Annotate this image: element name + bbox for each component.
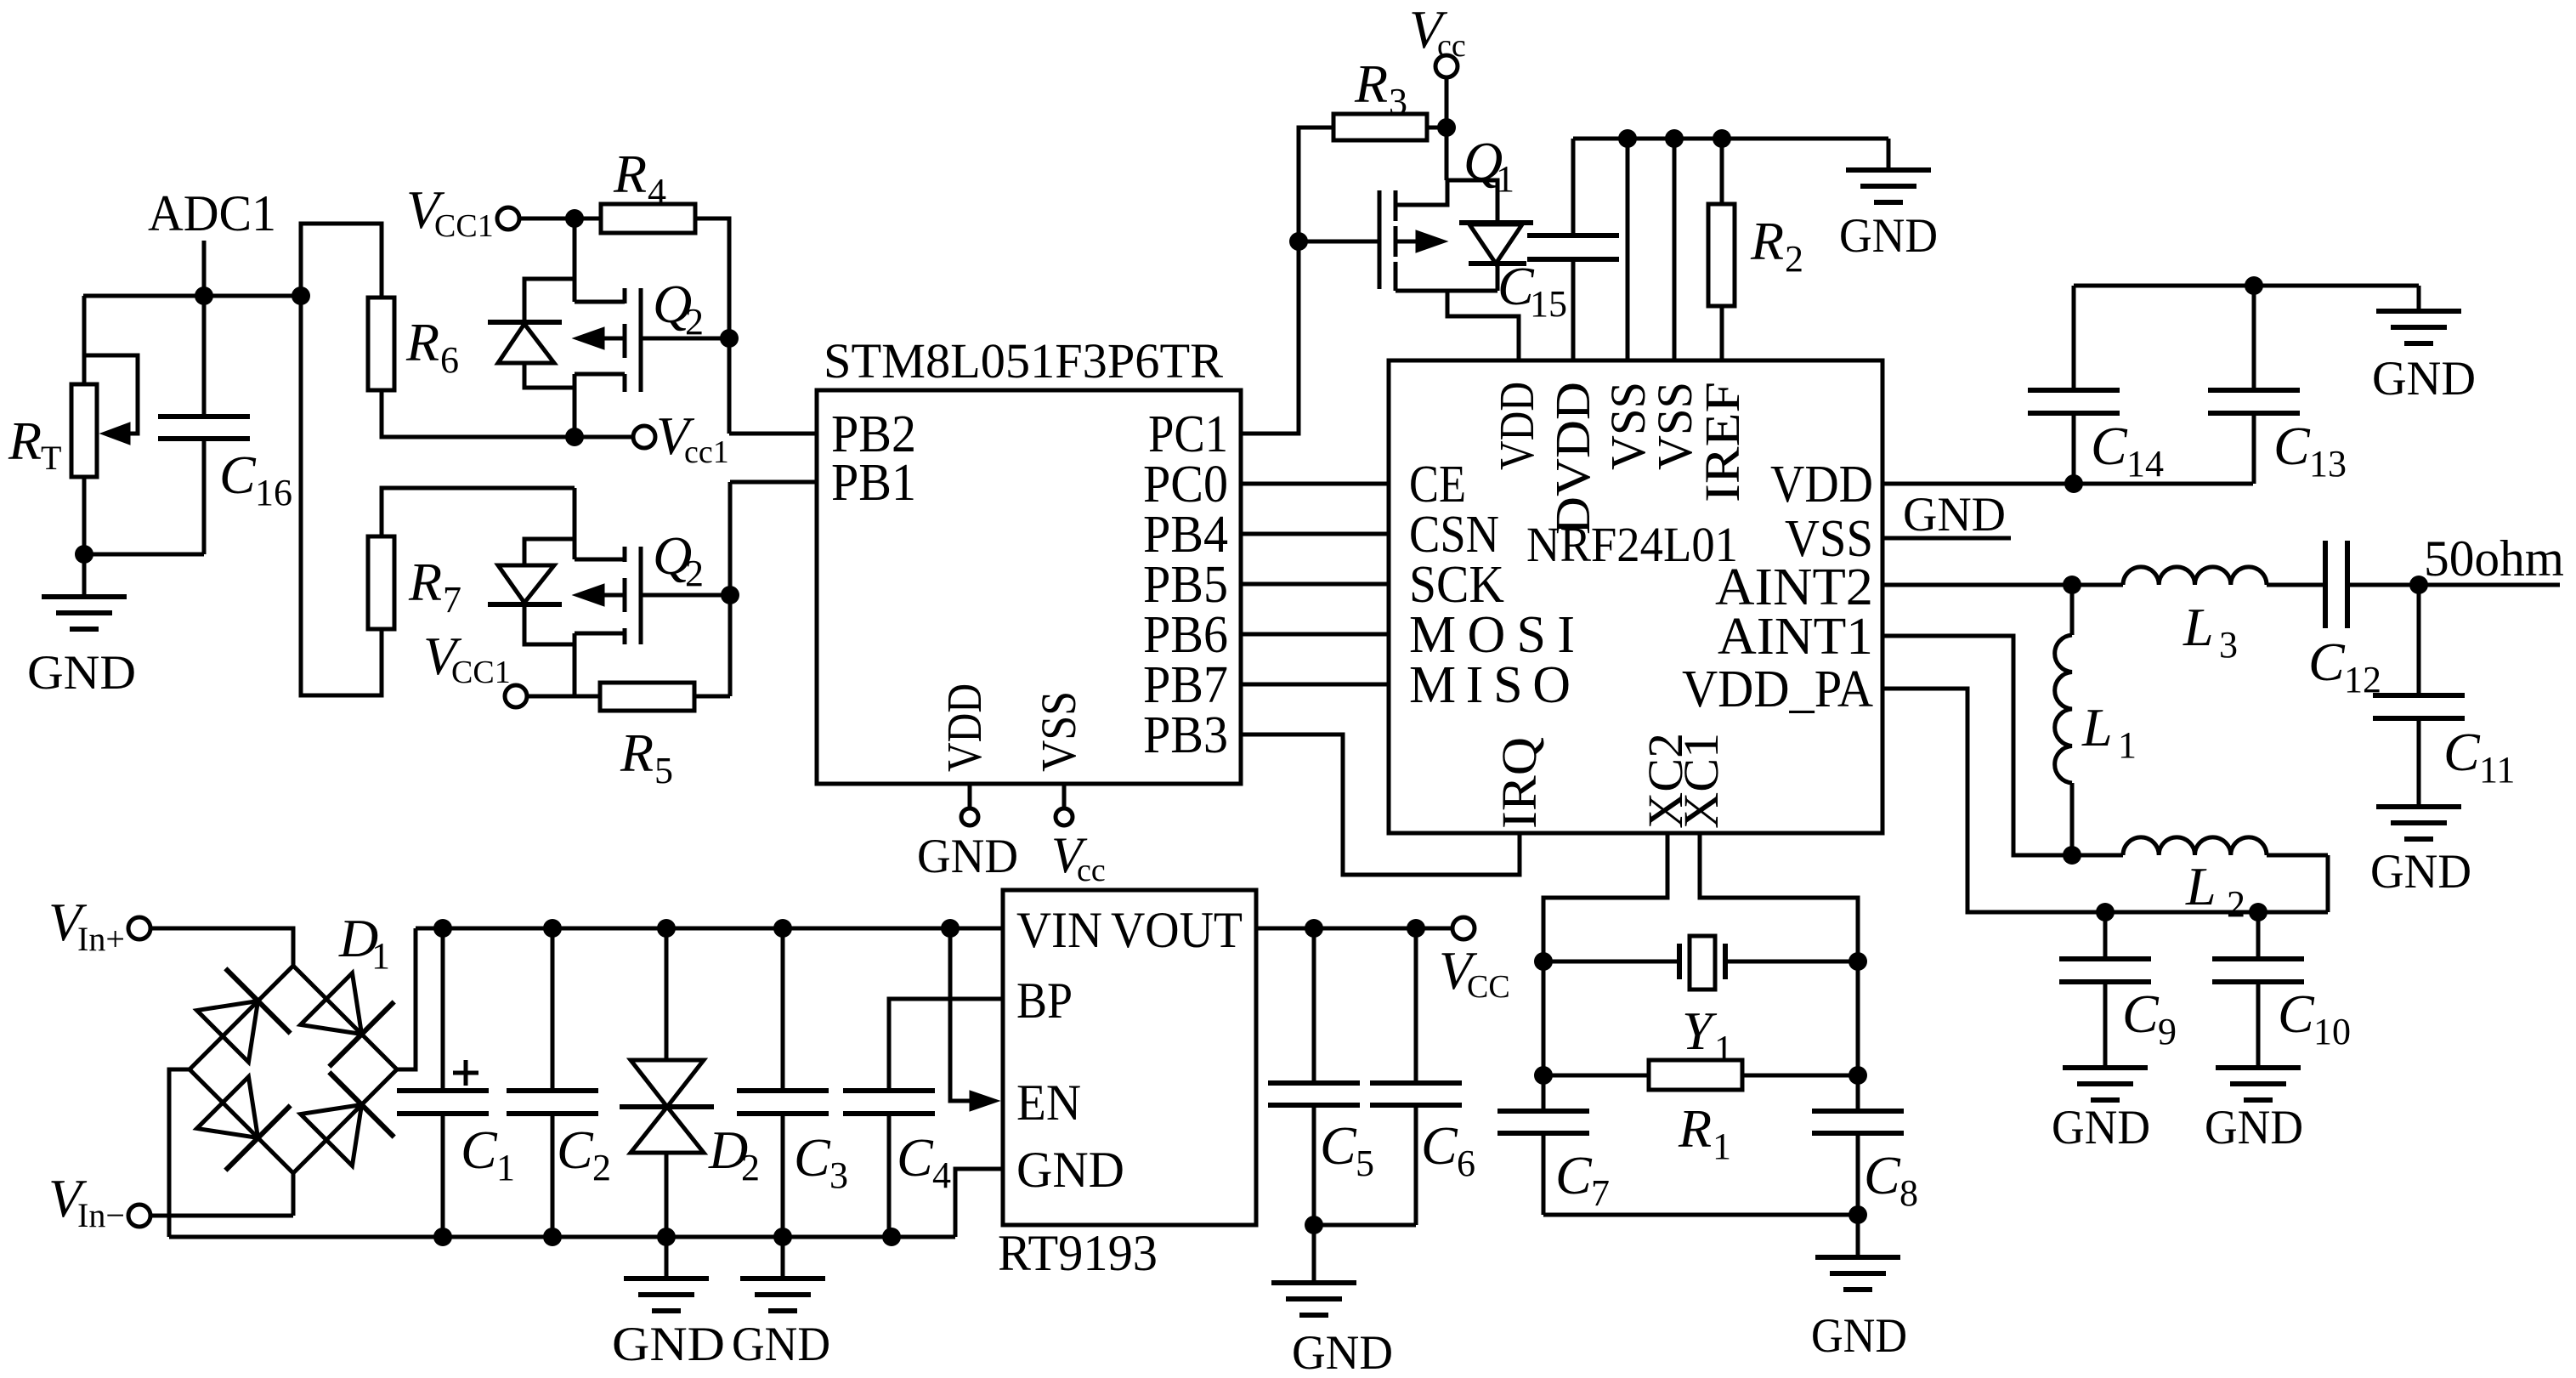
junction dot C2 top: [543, 919, 562, 938]
transistor Q2 (upper) gate bar: [639, 288, 643, 392]
label C5: [1320, 1115, 1374, 1184]
ground GND (C11): [2370, 718, 2471, 899]
terminal VCC1 (top): [497, 207, 519, 230]
pin label IRQ (NRF bottom): [1492, 737, 1547, 829]
pin label XC1 (NRF bottom): [1673, 733, 1729, 829]
label VCC1 lower: [423, 626, 511, 690]
capacitor C7 bottom stem: [1542, 1133, 1546, 1215]
transistor Q2 (lower) gate lead: [641, 593, 730, 598]
wire bridge + output: [397, 928, 416, 1069]
svg-text:R: R: [408, 552, 442, 612]
label R4: [613, 144, 666, 213]
svg-text:GND: GND: [1839, 209, 1938, 263]
label C15: [1497, 256, 1567, 325]
capacitor C1 plus sign: [453, 1060, 478, 1086]
junction dot C6 top: [1407, 919, 1425, 938]
capacitor C16 bottom stem: [202, 439, 207, 554]
wire EN branch: [950, 928, 974, 1101]
wire VOUT out: [1256, 927, 1452, 931]
capacitor C12: [2325, 541, 2347, 628]
svg-text:VDD: VDD: [1770, 456, 1873, 513]
transistor Q1 gate lead: [1299, 240, 1379, 244]
svg-text:GND: GND: [1811, 1309, 1907, 1363]
svg-text:C: C: [1555, 1145, 1593, 1205]
svg-text:GND: GND: [2052, 1101, 2150, 1154]
label NRF24L01: [1526, 517, 1738, 572]
bridge diode D1a (L to T): [197, 968, 291, 1062]
pin label VDD (STM bottom): [937, 683, 992, 772]
svg-text:8: 8: [1899, 1172, 1918, 1214]
label VIn-: [48, 1168, 125, 1234]
wire AINT2 out: [1882, 583, 2123, 587]
label R7: [408, 552, 461, 621]
wire R1 right lead: [1742, 1074, 1858, 1078]
wire R2 bottom stem: [1720, 306, 1724, 360]
svg-text:2: 2: [741, 1147, 760, 1188]
capacitor C3: [737, 1091, 829, 1114]
pin label AINT2: [1715, 559, 1873, 616]
transistor Q1 gate bar: [1378, 190, 1382, 289]
svg-text:IRQ: IRQ: [1492, 737, 1547, 829]
svg-text:C: C: [2273, 416, 2311, 476]
body diode D-Q1 cathode bar: [1469, 261, 1526, 266]
svg-text:1: 1: [2118, 724, 2137, 766]
label Vcc top: [1409, 0, 1466, 64]
svg-text:STM8L051F3P6TR: STM8L051F3P6TR: [824, 333, 1223, 388]
wire PB7-MISO: [1241, 683, 1389, 687]
svg-text:In−: In−: [77, 1196, 125, 1234]
svg-text:PB1: PB1: [831, 454, 916, 512]
capacitor C13 bottom stem: [2252, 413, 2256, 484]
pin label PC0: [1143, 456, 1228, 513]
wire VDD (NRF) to C13/C14: [1882, 482, 2253, 486]
resistor R2: [1708, 204, 1735, 306]
svg-text:C: C: [219, 445, 257, 505]
label Q2 (upper): [653, 274, 704, 343]
junction dot C5 top: [1305, 919, 1323, 938]
svg-text:1: 1: [371, 935, 390, 977]
junction dot C1 bottom: [433, 1228, 452, 1246]
svg-text:L: L: [2081, 697, 2113, 757]
svg-text:CSN: CSN: [1409, 506, 1499, 564]
body diode D-Q1 triangle: [1469, 224, 1522, 264]
svg-text:C: C: [1320, 1115, 1357, 1176]
svg-text:1: 1: [496, 1147, 515, 1188]
label Vcc (STM): [1051, 827, 1106, 888]
capacitor C1 top stem: [441, 928, 445, 1091]
junction dot C3 bottom: [773, 1228, 792, 1246]
TVS diode D2 bar: [620, 1104, 714, 1109]
transistor Q2 (upper) source column: [573, 218, 577, 302]
pin label MISO: [1409, 656, 1571, 714]
ground GND (top rail): [1839, 139, 1938, 263]
junction dot D2 top: [657, 919, 676, 938]
junction dot VSSb: [1665, 129, 1684, 148]
ground GND (crystal): [1811, 1215, 1907, 1363]
label GND (STM): [917, 830, 1018, 883]
EN arrow: [970, 1091, 999, 1111]
svg-text:C: C: [897, 1127, 934, 1188]
terminal GND stub (STM): [961, 808, 978, 825]
pin label GND (RT9193): [1016, 1142, 1124, 1198]
TVS diode D2 lower triangle: [631, 1107, 704, 1153]
capacitor C9: [2059, 959, 2151, 982]
wire VCC1 to R5: [527, 695, 600, 699]
ground GND (C13/C14): [2372, 286, 2476, 405]
svg-text:C: C: [794, 1127, 831, 1188]
svg-text:ADC1: ADC1: [148, 185, 276, 241]
capacitor C15 bottom stem: [1571, 259, 1576, 360]
transistor Q2 (upper) drain column: [573, 374, 577, 437]
label C7: [1555, 1145, 1610, 1214]
svg-text:6: 6: [1457, 1143, 1475, 1184]
wire R5 right: [694, 695, 730, 699]
ground GND (RT): [27, 554, 136, 700]
svg-text:R: R: [1354, 54, 1388, 114]
pin label IREF (NRF top): [1695, 382, 1750, 502]
svg-text:cc1: cc1: [684, 434, 729, 470]
svg-text:In+: In+: [77, 920, 125, 958]
inductor L3: [2123, 567, 2267, 585]
junction dot C2 bottom: [543, 1228, 562, 1246]
svg-text:C: C: [461, 1120, 498, 1180]
junction dot C5 gnd: [1305, 1216, 1323, 1234]
svg-text:3: 3: [1389, 81, 1407, 122]
label C14: [2091, 416, 2164, 485]
capacitor C2: [507, 1091, 598, 1114]
wire lower gate column: [728, 482, 733, 696]
pin label VSS (NRF right): [1785, 510, 1873, 568]
junction dot C14 bottom: [2064, 474, 2083, 493]
capacitor C5 top stem: [1312, 928, 1316, 1083]
pin label VSS (NRF top a): [1600, 382, 1656, 470]
junction dot L1/L2: [2063, 846, 2081, 865]
junction dot C9 top: [2096, 903, 2115, 922]
svg-text:T: T: [41, 439, 61, 477]
svg-text:4: 4: [932, 1154, 951, 1196]
junction dot C8 gnd: [1848, 1205, 1867, 1224]
svg-text:2: 2: [685, 553, 704, 594]
label L1: [2081, 697, 2137, 766]
transistor Q2 (upper) drain tap: [575, 372, 625, 377]
wire Vcc column: [1445, 77, 1449, 180]
svg-text:GND: GND: [612, 1318, 725, 1371]
label C6: [1421, 1115, 1475, 1184]
wire ADC1 node horizontal: [83, 294, 301, 298]
label VIn+: [48, 892, 125, 958]
svg-text:11: 11: [2479, 749, 2515, 791]
svg-text:50ohm: 50ohm: [2424, 530, 2564, 587]
junction dot R3-Vcc: [1437, 118, 1456, 137]
terminal Vcc stub (STM): [1056, 808, 1073, 825]
capacitor C5 bottom stem: [1312, 1105, 1316, 1225]
bridge D1 edge L-B: [190, 1069, 293, 1173]
wire RT/C16 bottom link: [84, 553, 204, 557]
pin label CE: [1409, 456, 1466, 513]
resistor R6: [368, 298, 394, 390]
svg-text:1: 1: [1496, 158, 1514, 200]
svg-text:PC0: PC0: [1143, 456, 1228, 513]
label R2: [1750, 211, 1803, 280]
capacitor C11 top stem: [2417, 585, 2421, 695]
body diode D-Q2a triangle: [498, 324, 554, 363]
svg-text:C: C: [1864, 1145, 1901, 1205]
svg-text:15: 15: [1530, 283, 1567, 325]
label VCC (RT9193 out): [1439, 940, 1510, 1005]
wire C7-C8 bottom: [1543, 1213, 1858, 1217]
node ADC1 label: [148, 185, 276, 241]
wire BP branch: [889, 999, 1003, 1091]
pin label PC1: [1148, 405, 1228, 463]
resistor R7: [368, 536, 394, 629]
transistor Q2 (upper) body arrow: [573, 327, 625, 349]
capacitor C7: [1497, 1111, 1589, 1133]
junction dot D2 bottom: [657, 1228, 676, 1246]
svg-text:VDD_PA: VDD_PA: [1682, 661, 1873, 718]
svg-text:10: 10: [2313, 1011, 2351, 1052]
label L3: [2183, 597, 2238, 666]
label C12: [2308, 632, 2381, 700]
bridge diode D1d (B to R): [301, 1072, 394, 1165]
bridge D1 edge T-L: [190, 966, 293, 1069]
svg-text:16: 16: [255, 472, 292, 513]
ground GND (C10): [2205, 982, 2303, 1154]
junction dot Vcc1 node: [565, 428, 584, 446]
capacitor C8 bottom stem: [1856, 1133, 1860, 1215]
TVS diode D2 bottom stem: [665, 1153, 669, 1237]
IC U-RT9193 box: [1003, 890, 1256, 1225]
svg-text:R: R: [1750, 211, 1784, 271]
pin label PB1: [831, 454, 916, 512]
svg-text:GND: GND: [917, 830, 1018, 883]
wire VCC1 to R4: [519, 217, 601, 221]
label C3: [794, 1127, 848, 1196]
ground GND (C3): [732, 1237, 830, 1371]
svg-text:C: C: [2091, 416, 2128, 476]
wire bridge bottom stub: [292, 1173, 296, 1216]
pin label VDD (NRF right): [1770, 456, 1873, 513]
svg-text:GND: GND: [732, 1318, 830, 1371]
label C16: [219, 445, 292, 513]
transistor Q1 drain tap: [1396, 289, 1497, 293]
label 50ohm: [2424, 530, 2564, 587]
junction dot Q2b gate: [721, 586, 739, 604]
label RT9193: [998, 1225, 1158, 1281]
label R3: [1354, 54, 1407, 122]
capacitor C1 bottom stem: [441, 1114, 445, 1237]
wire ADC1 stub: [202, 241, 207, 296]
wire RT top terminal: [82, 296, 87, 384]
capacitor C6 bottom stem: [1414, 1105, 1418, 1225]
svg-text:2: 2: [592, 1147, 611, 1188]
pin label VSS (STM bottom): [1031, 691, 1086, 772]
svg-text:VSS: VSS: [1031, 691, 1086, 772]
capacitor C6 top stem: [1414, 928, 1418, 1083]
svg-text:R: R: [405, 312, 439, 372]
capacitor C16: [158, 417, 250, 439]
label C10: [2278, 984, 2351, 1052]
wire Y1 right lead: [1725, 960, 1858, 964]
wire PC0-CE: [1241, 482, 1389, 486]
svg-text:BP: BP: [1016, 973, 1073, 1029]
capacitor C13 top stem: [2252, 286, 2256, 390]
wire PB3 to IRQ route: [1241, 734, 1520, 875]
wire L2 down: [2326, 855, 2330, 912]
pin label VIN: [1016, 902, 1102, 958]
svg-text:IREF: IREF: [1695, 382, 1750, 502]
svg-text:XC1: XC1: [1673, 733, 1729, 829]
label R1: [1678, 1098, 1731, 1167]
label C8: [1864, 1145, 1918, 1214]
net label GND (VSS wire): [1882, 488, 2011, 542]
inductor L1: [2055, 585, 2072, 855]
capacitor C4: [843, 1091, 935, 1114]
capacitor C1: [397, 1091, 489, 1114]
svg-text:5: 5: [1356, 1143, 1374, 1184]
pin label PB2: [831, 405, 916, 463]
svg-text:RT9193: RT9193: [998, 1225, 1158, 1281]
wire R7 top to Q2b: [382, 488, 575, 536]
resistor R5: [600, 683, 694, 711]
label C9: [2122, 984, 2177, 1052]
transistor Q2 (upper) source tap: [575, 300, 625, 304]
wire XC2 route: [1543, 833, 1667, 961]
TVS diode D2 top stem: [665, 928, 669, 1060]
svg-text:C: C: [557, 1120, 594, 1180]
junction dot Q1 gate branch: [1289, 232, 1308, 251]
svg-text:6: 6: [440, 339, 459, 381]
capacitor C14 bottom stem: [2072, 413, 2076, 484]
bridge diode D1c (L to B): [197, 1077, 291, 1171]
junction dot VCC1 column: [565, 209, 584, 228]
label R6: [405, 312, 459, 381]
wire RT wiper loop: [84, 355, 138, 434]
junction dot R1 left: [1534, 1066, 1553, 1085]
resistor R4: [601, 204, 695, 233]
body diode D-Q2a loop: [524, 279, 575, 388]
svg-text:cc: cc: [1437, 28, 1466, 64]
pin label XC2 (NRF bottom): [1638, 733, 1693, 829]
wire XC1 route: [1700, 833, 1858, 961]
junction dot L1 top: [2063, 576, 2081, 594]
junction dot VSSa: [1618, 129, 1637, 148]
junction dot 50ohm/C11: [2409, 576, 2428, 594]
wire VIn- to bridge: [150, 1214, 293, 1218]
svg-text:GND: GND: [1903, 488, 2006, 542]
pin label AINT1: [1718, 608, 1873, 666]
wire PB2 to gate column: [729, 432, 817, 436]
pin label DVDD (NRF top): [1545, 382, 1600, 535]
svg-text:VDD: VDD: [937, 683, 992, 772]
svg-text:2: 2: [1785, 238, 1803, 280]
body diode D-Q2b cathode bar: [488, 602, 562, 607]
wire PB4-CSN: [1241, 532, 1389, 536]
wire ADC1 down to R7 bottom: [301, 296, 382, 695]
wire R3 right: [1427, 126, 1447, 130]
terminal VCC (RT9193 out): [1452, 917, 1475, 939]
label C4: [897, 1127, 951, 1196]
junction dot RT-C16 bottom: [75, 545, 93, 564]
body diode D-Q1 anode bar: [1459, 220, 1533, 225]
junction dot Q2a gate: [720, 329, 739, 348]
label L2: [2185, 856, 2245, 925]
junction dot Y1 right: [1848, 952, 1867, 971]
svg-text:C: C: [2278, 984, 2315, 1044]
pin label PB7: [1143, 656, 1228, 714]
pin label VSS (NRF top b): [1647, 382, 1702, 470]
junction dot EN branch: [941, 919, 960, 938]
label Vcc1: [656, 405, 729, 470]
wire PB1 to gate column (lower): [730, 480, 817, 485]
wire VSSa drop: [1626, 139, 1630, 360]
transistor Q2 (lower) drain column: [573, 633, 577, 696]
terminal Vcc (top): [1435, 55, 1458, 77]
transistor Q2 (lower) source tap: [575, 558, 625, 562]
svg-text:3: 3: [2219, 624, 2238, 666]
svg-text:4: 4: [648, 171, 666, 213]
pin label PB3: [1143, 706, 1228, 764]
capacitor C15: [1527, 235, 1619, 259]
pin label PB6: [1143, 606, 1228, 664]
bridge D1 edge T-R: [293, 966, 397, 1069]
bridge D1 edge B-R: [293, 1069, 397, 1173]
inductor L2: [2072, 837, 2328, 855]
IC U-NRF24L01 box: [1389, 360, 1882, 833]
capacitor C2 top stem: [551, 928, 555, 1091]
svg-text:PB6: PB6: [1143, 606, 1228, 664]
svg-text:PB7: PB7: [1143, 656, 1228, 714]
transistor Q2 (upper) channel dashes: [623, 288, 627, 392]
svg-text:VDD: VDD: [1489, 382, 1544, 470]
label C1: [461, 1120, 515, 1188]
svg-text:7: 7: [1591, 1172, 1610, 1214]
crystal Y1: [1679, 936, 1725, 990]
wire PB6-MOSI: [1241, 632, 1389, 637]
body diode D-Q2b triangle: [498, 565, 554, 603]
svg-text:3: 3: [829, 1154, 848, 1196]
pin label EN: [1016, 1075, 1081, 1131]
svg-text:CC: CC: [1467, 969, 1510, 1005]
terminal VCC1 (lower): [505, 685, 527, 707]
wire R2 top stem: [1720, 139, 1724, 204]
capacitor C3 bottom stem: [781, 1114, 785, 1237]
transistor Q2 (lower) gate bar: [639, 547, 643, 644]
terminal VIn-: [128, 1205, 150, 1227]
svg-text:14: 14: [2126, 443, 2164, 485]
svg-text:2: 2: [685, 301, 704, 343]
label R5: [620, 723, 673, 791]
capacitor C14 top stem: [2072, 286, 2076, 390]
wire PC1 to R3/Q1 column: [1241, 128, 1333, 434]
wire L3 to C12: [2267, 583, 2325, 587]
wire C14/C13 top rail: [2074, 284, 2419, 288]
svg-text:R: R: [1678, 1098, 1712, 1159]
label VCC1 top: [406, 179, 494, 244]
junction dot Y1 left: [1534, 952, 1553, 971]
IC U-STM8 box: [817, 390, 1241, 784]
wire VIn+ to bridge: [150, 928, 293, 966]
svg-text:C: C: [2308, 632, 2346, 692]
label C2: [557, 1120, 611, 1188]
junction dot C3 top: [773, 919, 792, 938]
pin label VDD (NRF top): [1489, 382, 1544, 470]
bridge diode D1b (T to R): [301, 973, 394, 1067]
svg-text:C: C: [2443, 722, 2481, 782]
transistor Q2 (upper) gate lead: [641, 337, 729, 341]
body diode D-Q2a cathode bar: [488, 320, 562, 325]
ground GND (D2): [612, 1237, 725, 1371]
capacitor C9 top stem: [2103, 912, 2108, 959]
